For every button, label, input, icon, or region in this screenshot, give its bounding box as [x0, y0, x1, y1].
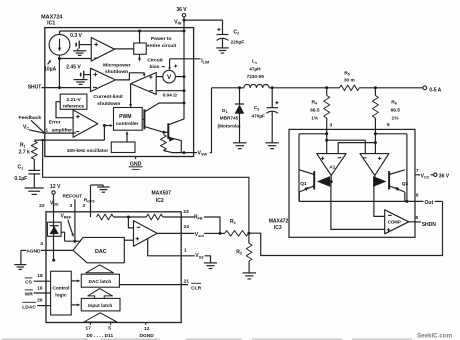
svg-text:IC3: IC3: [274, 225, 282, 231]
svg-text:shutdown: shutdown: [105, 69, 128, 75]
svg-text:CS: CS: [25, 279, 33, 285]
svg-text:100-kHz oscillator: 100-kHz oscillator: [67, 148, 109, 154]
svg-text:MBR745: MBR745: [220, 116, 239, 121]
svg-text:Current-limit: Current-limit: [93, 94, 123, 100]
svg-text:Circuit: Circuit: [147, 57, 163, 63]
svg-text:Q2: Q2: [402, 181, 409, 187]
svg-text:Error: Error: [49, 120, 61, 126]
svg-text:20: 20: [37, 297, 43, 303]
svg-text:30 m: 30 m: [344, 78, 355, 84]
svg-text:Out: Out: [425, 200, 434, 206]
svg-text:Feedback: Feedback: [19, 115, 42, 121]
svg-text:2.45 V: 2.45 V: [66, 64, 81, 70]
svg-text:DAC latch: DAC latch: [88, 279, 111, 285]
svg-text:12: 12: [144, 326, 150, 332]
svg-text:shutdown: shutdown: [97, 101, 120, 107]
svg-text:0.04 Ω: 0.04 Ω: [163, 92, 177, 97]
svg-text:IC1: IC1: [47, 21, 55, 27]
svg-text:220µF: 220µF: [230, 40, 244, 46]
svg-text:0.1µF: 0.1µF: [14, 176, 27, 182]
svg-text:22: 22: [39, 203, 45, 209]
svg-text:reference: reference: [63, 104, 85, 110]
svg-text:4: 4: [40, 241, 43, 247]
svg-text:DGND: DGND: [140, 333, 155, 339]
svg-text:0-5 A: 0-5 A: [429, 87, 441, 93]
svg-text:7230-09: 7230-09: [247, 74, 265, 79]
svg-text:3: 3: [70, 203, 73, 209]
svg-text:SeekIC.com: SeekIC.com: [417, 332, 453, 339]
svg-text:36 V: 36 V: [176, 7, 187, 13]
svg-text:SHDN: SHDN: [422, 222, 437, 228]
svg-text:amplifier: amplifier: [52, 128, 72, 134]
svg-text:36 V: 36 V: [439, 173, 450, 179]
svg-text:7: 7: [416, 168, 419, 174]
svg-text:2.7 k: 2.7 k: [19, 150, 30, 156]
svg-text:controller: controller: [116, 121, 139, 127]
svg-text:6: 6: [387, 122, 390, 128]
svg-text:bias: bias: [150, 64, 160, 70]
svg-text:entire circuit: entire circuit: [147, 43, 177, 49]
svg-text:2: 2: [83, 203, 86, 209]
svg-text:5: 5: [415, 215, 418, 221]
svg-text:1%: 1%: [311, 116, 319, 122]
svg-text:1: 1: [184, 248, 187, 254]
svg-text:1: 1: [45, 128, 48, 134]
svg-text:12 V: 12 V: [50, 184, 61, 190]
svg-text:D0 . . . . D11: D0 . . . . D11: [86, 333, 113, 339]
svg-text:66.5: 66.5: [391, 108, 401, 114]
svg-text:470µF: 470µF: [252, 113, 266, 118]
svg-text:Input latch: Input latch: [88, 303, 112, 309]
svg-text:WR: WR: [25, 291, 34, 297]
svg-text:MAX507: MAX507: [151, 190, 171, 196]
svg-text:Micropower: Micropower: [103, 62, 131, 68]
svg-text:SHUT: SHUT: [28, 85, 42, 91]
svg-text:AGND: AGND: [26, 249, 41, 255]
svg-text:DAC: DAC: [95, 249, 107, 255]
svg-text:Power to: Power to: [151, 36, 172, 42]
svg-text:Q1: Q1: [300, 181, 307, 187]
svg-text:2.21-V: 2.21-V: [67, 97, 82, 103]
svg-text:Control: Control: [52, 286, 69, 292]
svg-text:18: 18: [37, 273, 43, 279]
svg-text:CLR: CLR: [191, 286, 202, 292]
svg-text:24: 24: [183, 224, 189, 230]
svg-text:PWM: PWM: [119, 114, 131, 120]
svg-text:logic: logic: [55, 292, 67, 298]
svg-text:21: 21: [183, 278, 189, 284]
svg-text:A1: A1: [329, 165, 335, 171]
svg-text:COMP: COMP: [388, 220, 401, 225]
svg-text:47µH: 47µH: [249, 67, 261, 72]
svg-text:8: 8: [416, 193, 419, 199]
svg-text:0.3 V: 0.3 V: [70, 33, 82, 39]
svg-text:17: 17: [85, 325, 91, 331]
svg-text:1%: 1%: [392, 115, 400, 121]
svg-text:V: V: [167, 74, 172, 81]
svg-text:LDAC: LDAC: [22, 304, 36, 310]
svg-text:3: 3: [330, 122, 333, 128]
svg-text:MAX724: MAX724: [41, 14, 63, 20]
svg-text:REFOUT: REFOUT: [63, 193, 83, 199]
svg-text:5: 5: [108, 325, 111, 331]
svg-text:23: 23: [183, 209, 189, 215]
svg-text:IC2: IC2: [156, 198, 164, 204]
svg-text:MAX472: MAX472: [269, 219, 289, 225]
svg-text:19: 19: [37, 285, 43, 291]
svg-text:10µA: 10µA: [44, 66, 56, 72]
svg-text:66.5: 66.5: [310, 107, 320, 113]
svg-text:(Motorola): (Motorola): [218, 124, 241, 129]
